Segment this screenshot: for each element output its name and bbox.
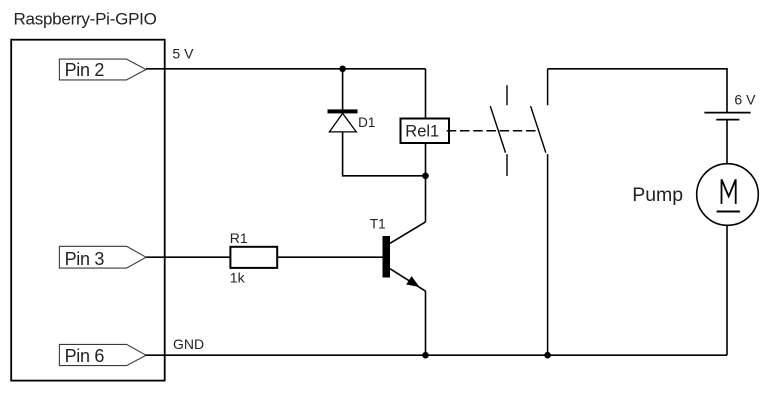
GPIO box	[11, 40, 165, 381]
svg-text:6 V: 6 V	[734, 91, 756, 107]
wire battery to motor	[726, 120, 728, 164]
wire top right to battery	[548, 69, 727, 112]
pin Pin 3	[59, 246, 146, 268]
resistor R1	[230, 247, 277, 268]
wire relay to collector	[425, 143, 427, 222]
wire diode anode top	[342, 69, 344, 110]
diode D1	[328, 109, 358, 131]
svg-text:Rel1: Rel1	[405, 123, 439, 141]
motor M1 pump	[697, 164, 759, 226]
pin Pin 6	[59, 344, 146, 366]
wire motor to gnd	[726, 225, 728, 355]
wire diode cathode bottom	[343, 132, 426, 176]
wire 5V top	[146, 68, 426, 70]
wire resistor to base	[277, 256, 382, 258]
svg-text:GND: GND	[173, 336, 204, 352]
junction emitter/gnd	[422, 352, 429, 359]
wire GND bottom	[145, 354, 727, 356]
svg-text:Pin 3: Pin 3	[65, 249, 105, 269]
switch S2 (relay contact)	[531, 69, 548, 355]
svg-text:R1: R1	[230, 230, 248, 246]
junction diode top	[339, 66, 346, 73]
wire relay drop	[425, 69, 427, 119]
wire emitter to gnd	[425, 291, 427, 355]
svg-text:Pin 2: Pin 2	[65, 60, 105, 80]
battery BT1 6V	[704, 113, 750, 120]
wire base from Pin 3	[146, 256, 230, 258]
svg-text:D1: D1	[358, 115, 375, 130]
junction switch/gnd	[544, 352, 551, 359]
svg-text:Raspberry-Pi-GPIO: Raspberry-Pi-GPIO	[14, 9, 157, 28]
svg-text:1k: 1k	[230, 270, 246, 286]
pin Pin 2	[59, 59, 146, 80]
switch S1 (spare contact)	[490, 85, 507, 176]
relay coil Rel1	[401, 119, 450, 144]
svg-text:T1: T1	[370, 217, 386, 232]
transistor T1	[383, 222, 426, 291]
svg-text:Pin 6: Pin 6	[65, 346, 105, 366]
svg-text:5 V: 5 V	[172, 45, 194, 61]
svg-text:Pump: Pump	[632, 184, 683, 206]
dashed linkage relay to contacts	[447, 130, 537, 132]
junction relay/diode bottom	[422, 173, 429, 180]
